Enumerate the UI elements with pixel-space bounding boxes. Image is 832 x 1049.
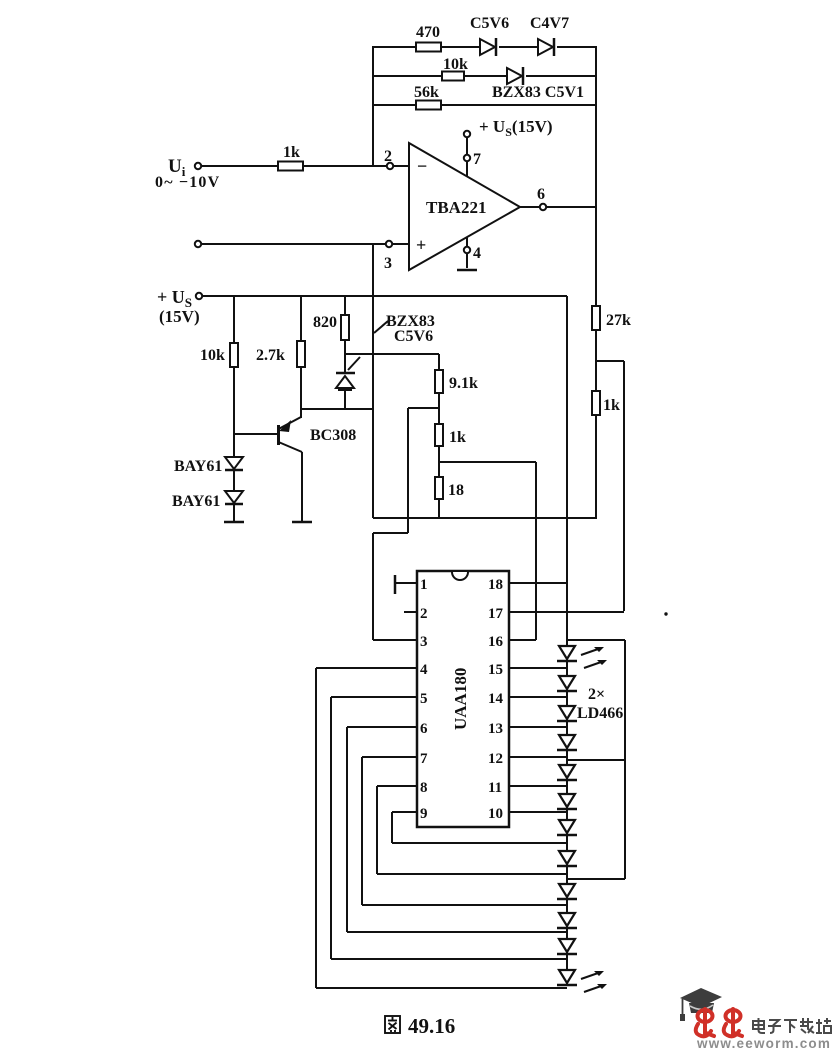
wire pin5 wire left [331, 696, 417, 698]
svg-text:+: + [416, 235, 426, 255]
LED D5 LD466 [557, 765, 577, 780]
terminal +Us op-amp [464, 131, 470, 137]
diode C4V7 [530, 15, 569, 56]
svg-text:11: 11 [488, 780, 502, 796]
svg-text:www.eeworm.com: www.eeworm.com [696, 1036, 831, 1049]
svg-text:C5V6: C5V6 [394, 328, 433, 345]
svg-text:49.16: 49.16 [408, 1014, 455, 1038]
wire junction 9.1k-1k tap [408, 407, 439, 409]
wire pin4 nest vertical [315, 668, 317, 988]
svg-text:LD466: LD466 [577, 705, 623, 722]
node pin4 [464, 247, 470, 253]
svg-text:18: 18 [448, 482, 464, 499]
svg-text:6: 6 [420, 721, 428, 737]
wire pin5 nest bottom to LED chain [331, 958, 567, 960]
wire input wire lower [201, 243, 409, 245]
wire feedback mid branch left [373, 75, 442, 77]
wire feedback right vertical [595, 46, 597, 208]
wire 9.1k to 1k mid [438, 393, 440, 424]
node pin3 [386, 241, 392, 247]
svg-text:5: 5 [420, 691, 428, 707]
LD466 array bracket box [568, 640, 625, 879]
wire BAY61 to ground [233, 504, 235, 521]
wire pin4 nest bottom to LED chain [316, 987, 567, 989]
svg-text:56k: 56k [414, 84, 439, 101]
svg-text:18: 18 [488, 577, 503, 593]
zener diode BZX83 C5V6 [336, 373, 355, 390]
wire pin10 wire to LED chain [509, 811, 567, 813]
wire 10k branch top [233, 296, 235, 343]
resistor 1k mid [435, 424, 466, 446]
svg-text:BAY61: BAY61 [172, 493, 220, 510]
svg-text:1k: 1k [603, 397, 620, 414]
wire zener anode down [344, 388, 346, 409]
label BZX83 C5V6 with leader line [348, 313, 435, 370]
LED D12 LD466 [557, 970, 607, 992]
wire pin7 supply [466, 137, 468, 176]
wire collector down [301, 452, 303, 521]
wire pin8 nest bottom to LED chain [377, 873, 567, 875]
wire pin12 wire to LED chain [509, 756, 567, 758]
wire pin4 wire left [316, 667, 417, 669]
svg-text:BC308: BC308 [310, 427, 356, 444]
wire pin1 stub [395, 582, 417, 584]
wire feedback top branch right [557, 46, 596, 48]
ground collector [292, 521, 312, 524]
wire feedback left vertical [372, 46, 374, 166]
node pin2 [387, 163, 393, 169]
LED D10 LD466 [557, 913, 577, 928]
LED D9 LD466 [557, 884, 577, 899]
pin1 terminator bar [394, 575, 397, 594]
svg-text:10k: 10k [200, 347, 225, 364]
wire pin17 wire [509, 611, 624, 613]
svg-text:7: 7 [420, 751, 428, 767]
svg-text:7: 7 [473, 151, 481, 168]
wire pin16 wire [509, 639, 536, 641]
diode C5V6 [470, 15, 509, 56]
label 2x LD466 [577, 686, 623, 722]
wire 10k branch to base node [233, 367, 235, 457]
wire tap jog horizontal [373, 532, 408, 534]
svg-text:10k: 10k [443, 56, 468, 73]
logo graduation cap [680, 988, 722, 1021]
wire 1k right bottom [595, 415, 597, 519]
wire junction 1k-18 tap to pin16 [439, 461, 536, 463]
svg-text:3: 3 [384, 255, 392, 272]
LED D1 LD466 [557, 646, 607, 668]
svg-text:−: − [417, 156, 427, 176]
wire pin16 vertical [535, 462, 537, 640]
diode BAY61 upper [174, 457, 243, 475]
resistor 9.1k [435, 370, 478, 393]
node output pin6 [540, 204, 546, 210]
wire pin4 wire [466, 237, 468, 268]
wire divider tap right [596, 360, 624, 362]
op-amp U1 TBA221 [409, 143, 520, 270]
svg-text:BAY61: BAY61 [174, 458, 222, 475]
ground op-amp pin4 [457, 269, 477, 272]
wire pin2 stub [404, 611, 417, 613]
wire output to 27k [595, 207, 597, 306]
svg-text:0~ −10V: 0~ −10V [155, 174, 220, 191]
wire pin6 nest vertical [346, 727, 348, 932]
wire feedback mid branch right [526, 75, 596, 77]
wire pin5 nest vertical [330, 697, 332, 959]
svg-text:2: 2 [420, 606, 428, 622]
wire feedback top branch left [373, 46, 416, 48]
speck [664, 612, 667, 615]
wire input wire Ui to 1k [201, 165, 278, 167]
wire pin3 wire UAA [373, 639, 417, 641]
svg-text:8: 8 [420, 780, 428, 796]
wire pin8 wire left [377, 785, 417, 787]
svg-text:12: 12 [488, 751, 503, 767]
svg-text:14: 14 [488, 691, 504, 707]
wire 820 branch top [344, 296, 346, 315]
svg-text:3: 3 [420, 634, 428, 650]
svg-text:10: 10 [488, 806, 503, 822]
wire pin7 wire left [362, 756, 417, 758]
svg-text:(15V): (15V) [159, 307, 200, 326]
resistor 470 [416, 24, 441, 52]
svg-text:2×: 2× [588, 686, 605, 703]
svg-text:9: 9 [420, 806, 428, 822]
resistor 27k [592, 306, 631, 330]
logo red characters chong chong [696, 1009, 742, 1036]
resistor 56k [414, 84, 441, 110]
wire pin7 nest vertical [361, 757, 363, 905]
LED D6 LD466 [557, 794, 577, 809]
svg-text:4: 4 [473, 245, 481, 262]
wire pin9 nest bottom to LED chain [392, 842, 567, 844]
svg-text:9.1k: 9.1k [449, 375, 478, 392]
svg-text:13: 13 [488, 721, 503, 737]
wire comparison node line [373, 517, 596, 519]
wire emitter node wire [301, 408, 373, 410]
svg-text:C4V7: C4V7 [530, 15, 569, 32]
resistor 1k input [278, 144, 303, 171]
wire 18 bottom stub [438, 499, 440, 518]
svg-text:470: 470 [416, 24, 440, 41]
wire input wire 1k to pin2 [303, 165, 409, 167]
zener BZX83 C5V1 [492, 67, 584, 101]
svg-text:15: 15 [488, 662, 503, 678]
resistor 10k feedback [442, 56, 468, 81]
wire 1k mid to 18 [438, 446, 440, 477]
wire +Us rail [202, 295, 567, 297]
resistor 820 [313, 314, 349, 340]
svg-text:2: 2 [384, 148, 392, 165]
svg-text:BZX83 C5V1: BZX83 C5V1 [492, 84, 584, 101]
terminal input lower [195, 241, 201, 247]
svg-text:TBA221: TBA221 [426, 198, 486, 217]
svg-text:+ US(15V): + US(15V) [479, 117, 553, 139]
svg-text:27k: 27k [606, 312, 631, 329]
LED D7 LD466 [557, 820, 577, 835]
terminal Ui [195, 163, 201, 169]
resistor 10k bias [200, 343, 238, 367]
transistor Q1 BC308 PNP [279, 417, 357, 452]
node pin7 [464, 155, 470, 161]
wire feedback top branch mid2 [499, 46, 540, 48]
resistor 2.7k [256, 341, 305, 367]
svg-text:C5V6: C5V6 [470, 15, 509, 32]
wire rail drop to LED column [566, 296, 568, 647]
wire pin6 nest bottom to LED chain [347, 931, 567, 933]
wire pin14 wire to LED chain [509, 696, 567, 698]
wire feedback bottom branch left [373, 104, 416, 106]
wire 2.7k to emitter [300, 367, 302, 418]
svg-text:16: 16 [488, 634, 504, 650]
wire pin8 nest vertical [376, 786, 378, 874]
wire pin9 wire left [392, 811, 417, 813]
wire 27k to 1k right [595, 330, 597, 391]
wire output wire [520, 206, 596, 208]
wire pin6 wire left [347, 726, 417, 728]
ground BAY61 [224, 521, 244, 524]
wire zener node to 9.1k [345, 353, 439, 355]
wire 9.1k top stub [438, 354, 440, 370]
caption figure 49.16 [385, 1014, 455, 1038]
svg-text:UAA180: UAA180 [451, 668, 470, 730]
logo text dian zi xia zai zhan [753, 1018, 831, 1033]
svg-text:2.7k: 2.7k [256, 347, 285, 364]
svg-text:1: 1 [420, 577, 428, 593]
LED D11 LD466 [557, 939, 577, 954]
wire feedback bottom branch right [441, 104, 596, 106]
wire pin18 wire [509, 582, 567, 584]
diode BAY61 lower [172, 491, 243, 510]
wire pin9 nest vertical [391, 812, 393, 843]
wire pin3 vertical [372, 244, 374, 518]
wire tap jog vertical to UAA pin3 [372, 533, 374, 640]
svg-text:17: 17 [488, 606, 504, 622]
wire pin11 wire to LED chain [509, 785, 567, 787]
wire 820 to zener [344, 340, 346, 372]
LED D3 LD466 [557, 706, 577, 721]
svg-text:6: 6 [537, 186, 545, 203]
terminal +Us rail [196, 293, 202, 299]
svg-text:4: 4 [420, 662, 428, 678]
svg-text:1k: 1k [283, 144, 300, 161]
wire between BAY61 diodes [233, 471, 235, 491]
IC U2 UAA180 [417, 571, 509, 827]
wire pin15 wire to LED chain [509, 667, 567, 669]
svg-text:820: 820 [313, 314, 337, 331]
wire divider tap down to pin17 [623, 361, 625, 611]
wire base wire [234, 433, 278, 435]
LED D4 LD466 [557, 735, 577, 750]
svg-text:1k: 1k [449, 429, 466, 446]
resistor 18 [435, 477, 464, 499]
wire 2.7k branch top [300, 296, 302, 341]
wire pin13 wire to LED chain [509, 726, 567, 728]
LED D8 LD466 [557, 851, 577, 866]
wire pin7 nest bottom to LED chain [362, 904, 567, 906]
wire LED chain spine [566, 647, 568, 986]
resistor 1k right [592, 391, 620, 415]
wire feedback top branch mid [441, 46, 482, 48]
LED D2 LD466 [557, 676, 577, 691]
wire feedback mid branch mid [464, 75, 507, 77]
wire tap vertical down [407, 408, 409, 533]
